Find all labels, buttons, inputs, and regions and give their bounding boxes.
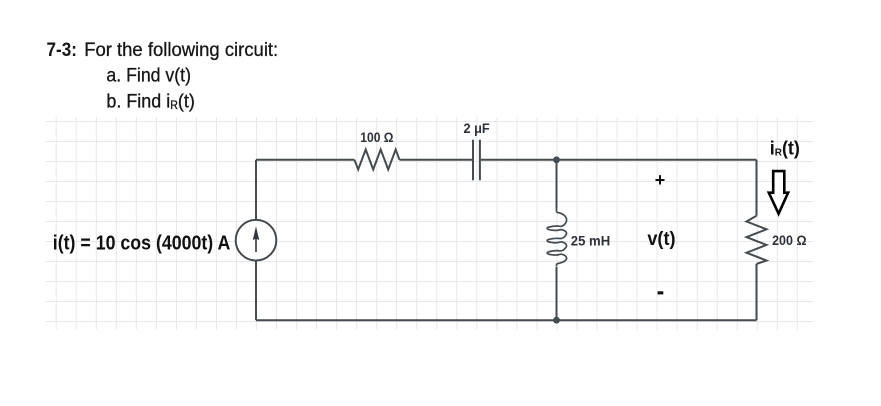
inductor L1 coil [547, 208, 566, 266]
node B bottom of inductor branch [553, 317, 560, 324]
wire top from R1 to capacitor C1 [400, 159, 473, 161]
block arrow iR direction down [769, 171, 788, 214]
wire middle upper [556, 160, 558, 209]
current source arrow up [255, 239, 257, 252]
svg-text:v(t): v(t) [647, 229, 675, 250]
svg-text:100 Ω: 100 Ω [360, 129, 393, 145]
svg-text:iR(t): iR(t) [770, 138, 800, 159]
svg-text:For the following circuit:: For the following circuit: [84, 39, 278, 61]
label minus sign [658, 291, 664, 294]
svg-text:7-3:: 7-3: [47, 39, 77, 61]
wire right upper [756, 160, 758, 216]
wire left lower [255, 261, 257, 321]
current source I1 circle [236, 220, 277, 261]
svg-text:200 Ω: 200 Ω [772, 232, 806, 248]
svg-text:b. Find iR(t): b. Find iR(t) [106, 91, 194, 113]
resistor R1 100 ohm [354, 150, 399, 170]
svg-text:2 μF: 2 μF [464, 120, 491, 136]
wire right lower [756, 264, 758, 320]
capacitor C1 plates [473, 140, 480, 181]
wire middle lower [556, 267, 558, 321]
wire top from source to resistor R1 [256, 159, 354, 161]
svg-text:a. Find v(t): a. Find v(t) [106, 65, 191, 87]
resistor R2 200 ohm [747, 216, 767, 264]
node A top of inductor branch [553, 156, 560, 163]
svg-text:+: + [655, 170, 666, 190]
svg-text:25 mH: 25 mH [571, 233, 610, 249]
wire top from capacitor to right corner [481, 159, 757, 161]
wire bottom [256, 319, 757, 321]
wire left upper [255, 160, 257, 220]
svg-text:i(t) = 10 cos (4000t) A: i(t) = 10 cos (4000t) A [53, 233, 231, 255]
